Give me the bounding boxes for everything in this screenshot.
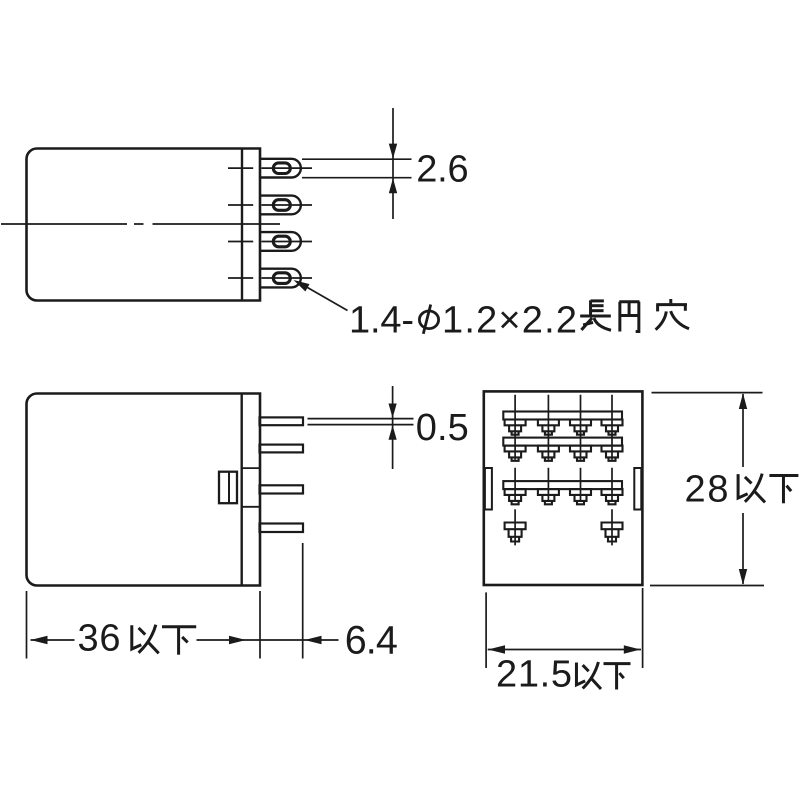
terminal pins row 1	[505, 420, 623, 435]
svg-text:1.4-: 1.4-	[349, 300, 414, 342]
dim 28 extension lines	[650, 393, 764, 586]
dim 28 arrow up	[739, 393, 747, 409]
terminal pins row 2	[505, 446, 623, 461]
row 3 bar	[503, 481, 622, 489]
dim 28 kanji 以	[738, 474, 765, 503]
pin 1 (side view)	[260, 417, 304, 425]
dim 28 text mask	[682, 467, 799, 513]
dim 36 kanji 以	[132, 625, 159, 654]
left notch	[485, 468, 492, 510]
dim 21.5 extension lines	[486, 588, 642, 668]
relay body (bottom view)	[484, 391, 643, 585]
label leader arrowhead	[294, 280, 310, 292]
svg-text:21.5: 21.5	[496, 653, 572, 695]
dim 21.5 arrow left	[488, 645, 505, 653]
dim 2.6 arrow up	[389, 178, 397, 193]
flange line (side view)	[240, 394, 242, 586]
arrowheads	[31, 144, 748, 654]
terminal coil pins bottom	[505, 523, 623, 542]
pin 2 (top view) blade	[260, 196, 301, 215]
dim 21.5 arrow right	[624, 645, 641, 653]
pin 1 center ticks	[228, 167, 312, 169]
pin 2 center ticks	[228, 204, 312, 206]
pin 1 oblong hole	[273, 163, 290, 174]
pin 4 center ticks	[228, 277, 312, 279]
dim 36 dimension line	[31, 639, 339, 641]
svg-text:36: 36	[78, 617, 121, 659]
svg-text:0.5: 0.5	[416, 407, 469, 449]
terminal centerlines bottom pins	[515, 509, 612, 545]
dim 21.5 dimension line	[488, 649, 641, 651]
label kanji 円	[619, 302, 639, 332]
svg-text:1.2×2.2: 1.2×2.2	[442, 300, 577, 342]
dim 0.5 dimension line	[392, 386, 394, 469]
row 2 bar	[503, 438, 622, 446]
dim 28 kanji 下	[769, 475, 798, 503]
terminal centerlines rows 1-2	[515, 395, 612, 460]
pin 2 (side view)	[260, 445, 304, 453]
dim 36 kanji 下	[162, 627, 196, 655]
pin 1 (top view) blade	[260, 159, 301, 178]
dim 6.4 arrow left	[305, 636, 322, 644]
latch box	[219, 472, 237, 504]
dim 36 arrow right	[229, 636, 246, 644]
dim 36 arrow left	[31, 636, 48, 644]
terminal pins row 3	[505, 489, 623, 504]
dim 21.5 kanji 下	[604, 664, 631, 690]
relay body (side view)	[27, 394, 261, 586]
pin 3 center ticks	[228, 241, 312, 243]
phi diameter symbol	[419, 305, 438, 334]
label kanji 長	[580, 300, 611, 330]
pin 3 (top view) blade	[260, 232, 301, 251]
pin 4 (side view)	[260, 524, 304, 533]
right notch	[634, 468, 641, 510]
flange division lines	[242, 468, 260, 507]
pin 4 (top view) blade	[260, 269, 301, 288]
dim 21.5 kanji 以	[576, 662, 601, 689]
dim 0.5 arrow down	[389, 404, 397, 419]
flange line (top view)	[241, 149, 243, 301]
pin 2 oblong hole	[273, 200, 290, 211]
svg-text:6.4: 6.4	[345, 618, 398, 662]
svg-text:28: 28	[685, 469, 729, 511]
dim 2.6 arrow down	[389, 144, 397, 159]
row 1 bar	[503, 412, 622, 420]
label kanji 穴	[656, 299, 689, 330]
dim 0.5 extension lines	[308, 419, 414, 425]
dim 2.6 extension lines	[302, 159, 412, 178]
dim 28 dimension line	[742, 394, 744, 584]
svg-text:2.6: 2.6	[416, 148, 469, 190]
pin 3 (side view)	[260, 485, 304, 493]
pin 3 oblong hole	[273, 236, 290, 247]
dim 36 extension lines	[27, 543, 303, 659]
center line dash-dot (top view)	[1, 223, 280, 225]
dim 2.6 dimension line	[392, 108, 394, 219]
latch inner line	[228, 472, 230, 504]
dim 28 arrow down	[739, 569, 747, 585]
dim 0.5 arrow up	[389, 425, 397, 440]
label leader line	[297, 282, 348, 311]
relay body (top view)	[27, 149, 261, 301]
pin 4 oblong hole	[273, 273, 290, 284]
terminal centerlines row 3	[515, 468, 612, 501]
